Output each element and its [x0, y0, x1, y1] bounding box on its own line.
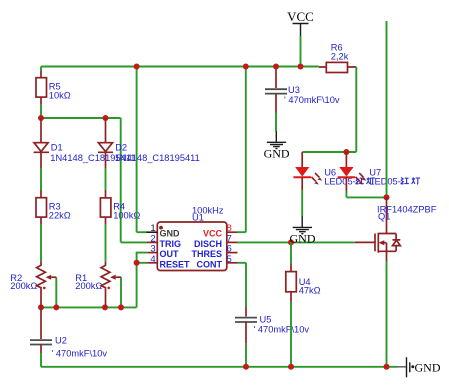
node dot U7 anode — [343, 149, 349, 155]
svg-text:GND: GND — [160, 229, 181, 239]
svg-text:D1: D1 — [51, 143, 63, 153]
potentiometer R2 symbol — [37, 262, 57, 307]
capacitor U5 — [235, 307, 309, 344]
node dot pin1 bus — [134, 64, 140, 70]
pin 4 — [147, 262, 157, 264]
svg-text:CONT: CONT — [197, 259, 223, 269]
pin 8 — [227, 231, 237, 233]
node dot pin8 bus — [243, 64, 249, 70]
node dot R5/D1 — [38, 115, 44, 121]
wire D1 to R3 — [40, 168, 42, 190]
wire TRIG vertical — [121, 118, 148, 242]
svg-text:4: 4 — [150, 254, 155, 265]
node dot D2 tap — [103, 115, 109, 121]
svg-text:' 470mkF\10v: ' 470mkF\10v — [284, 95, 340, 105]
svg-text:1N4148_C18195411: 1N4148_C18195411 — [115, 153, 200, 163]
pin 6 — [227, 252, 238, 254]
svg-text:DISCH: DISCH — [194, 239, 222, 249]
svg-text:22kΩ: 22kΩ — [49, 211, 71, 221]
LED U6 — [293, 152, 375, 190]
potentiometer R2 labels — [10, 273, 37, 291]
capacitor U2 — [30, 307, 107, 358]
wire R6 to LED bus — [302, 67, 356, 152]
wire source to bottom bus — [386, 261, 388, 367]
wire drain net up — [386, 21, 388, 195]
svg-text:' 470mkF\10v: ' 470mkF\10v — [52, 349, 108, 359]
svg-text:5: 5 — [227, 254, 232, 265]
svg-text:GND: GND — [290, 232, 316, 246]
resistor R3 — [36, 190, 71, 224]
svg-text:2,2k: 2,2k — [331, 52, 349, 62]
svg-text:GND: GND — [415, 360, 441, 374]
resistor U4 — [286, 264, 321, 302]
node dot U4 tap — [288, 239, 294, 245]
resistor R6 — [319, 43, 357, 73]
node VCC wire on bus — [298, 64, 304, 70]
pin 3 — [147, 252, 157, 254]
wire pot bus — [41, 306, 137, 308]
node dot drain — [384, 194, 390, 200]
diode D1 — [34, 118, 136, 168]
node U5 on bottom bus — [243, 364, 249, 370]
svg-text:10kΩ: 10kΩ — [49, 91, 71, 101]
node dot pin4 — [134, 260, 140, 266]
svg-text:VCC: VCC — [203, 229, 223, 239]
wire anode bus y118 — [41, 117, 121, 119]
node R1 wiper on pot bus — [118, 304, 124, 310]
capacitor U3 — [265, 67, 340, 113]
wire D2 to R4 — [105, 168, 107, 190]
svg-text:VCC: VCC — [287, 9, 314, 24]
wire U7 to drain node — [346, 191, 386, 197]
svg-text:TRIG: TRIG — [160, 239, 182, 249]
svg-text:Q1: Q1 — [378, 212, 390, 222]
node R2 wiper on pot bus — [53, 304, 59, 310]
wire U5 to bottom bus — [245, 344, 247, 367]
svg-text:U2: U2 — [55, 336, 67, 346]
wire U4 top — [290, 242, 292, 263]
node R1 bottom on pot bus — [102, 304, 108, 310]
node U4 on bottom bus — [288, 364, 294, 370]
wire VCC to top bus — [300, 36, 302, 67]
power symbol VCC — [287, 9, 314, 36]
ground right power symbol — [397, 357, 441, 377]
wire pin3 to pin4 node — [137, 253, 148, 263]
svg-text:RESET: RESET — [160, 259, 191, 269]
IC U1 555 — [147, 206, 238, 271]
svg-text:OUT: OUT — [160, 249, 180, 259]
node U3 tap on VCC bus — [273, 64, 279, 70]
wire bottom bus — [41, 366, 397, 368]
pin 7 — [227, 241, 237, 243]
wire U4 to bottom bus — [290, 302, 292, 367]
node R2 bottom on pot bus — [38, 304, 44, 310]
wire pin7 DISCH to gate — [237, 241, 355, 243]
wire U2 to bottom bus — [40, 353, 42, 367]
wire pin8 to top bus — [237, 67, 246, 233]
svg-text:THRES: THRES — [191, 249, 222, 259]
node Q1 source on bottom bus — [384, 364, 390, 370]
svg-text:200kΩ: 200kΩ — [75, 281, 102, 291]
wire pin1 to top bus — [137, 67, 147, 233]
ground U3 — [264, 131, 290, 160]
wire U6 to gnd — [301, 190, 303, 217]
wire R5 to node — [40, 104, 42, 118]
svg-text:47kΩ: 47kΩ — [299, 286, 321, 296]
LED U7 — [338, 152, 420, 191]
svg-text:' 470mkF\10v: ' 470mkF\10v — [254, 325, 310, 335]
wire R2 wiper down — [55, 277, 57, 307]
svg-text:200kΩ: 200kΩ — [10, 281, 37, 291]
wire pin5 to U5 — [237, 263, 246, 307]
resistor R4 — [100, 190, 140, 224]
svg-text:U5: U5 — [260, 315, 272, 325]
wire R3 to R2 — [40, 224, 42, 262]
pin 2 — [147, 241, 157, 243]
svg-text:U1: U1 — [192, 212, 204, 222]
pin 5 — [227, 262, 237, 264]
potentiometer R1 labels — [75, 273, 102, 291]
wire pot bus to pin3/4 — [136, 263, 138, 308]
wire R4 to R1 — [105, 224, 107, 262]
diode D2 — [98, 118, 200, 168]
wire top bus — [41, 66, 319, 68]
wire R5 top — [40, 67, 42, 72]
svg-text:GND: GND — [264, 147, 290, 161]
mosfet Q1 — [355, 197, 437, 261]
ground U6 — [290, 216, 316, 245]
svg-text:U3: U3 — [288, 85, 300, 95]
wire U3 to gnd — [275, 113, 277, 132]
pin 1 — [147, 231, 158, 233]
wire R1 wiper down — [120, 277, 122, 307]
svg-text:LED05-: LED05- — [369, 177, 401, 187]
potentiometer R1 symbol — [101, 262, 121, 307]
resistor R5 — [36, 71, 71, 104]
svg-text:D2: D2 — [115, 143, 127, 153]
